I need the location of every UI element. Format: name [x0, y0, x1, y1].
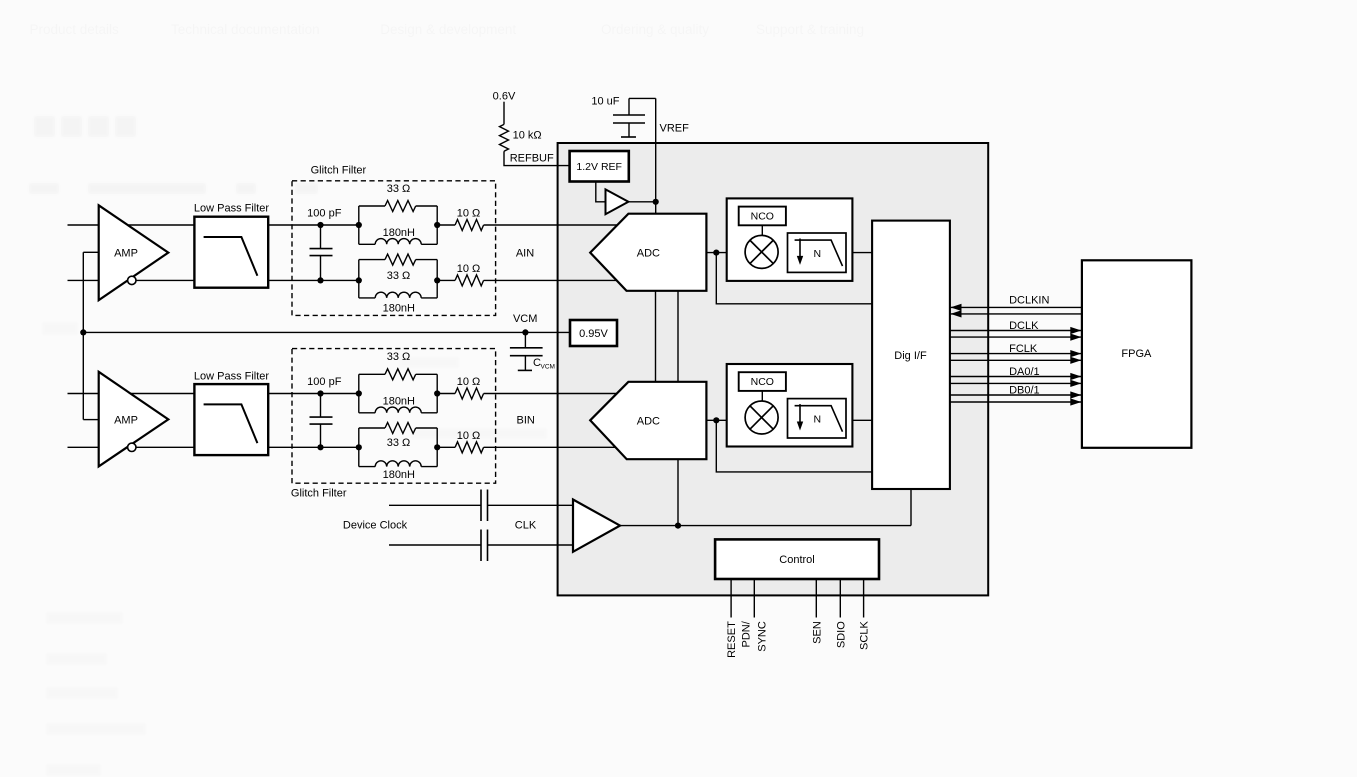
svg-text:FPGA: FPGA — [1121, 348, 1152, 360]
svg-text:DB0/1: DB0/1 — [1009, 384, 1040, 396]
pin label PDN/ — [741, 620, 753, 647]
wire buffer out to VREF node — [628, 201, 655, 203]
wire BIN+ input to AMP B — [68, 393, 99, 395]
block 1.2V REF — [570, 151, 629, 182]
wire SEN stub — [815, 579, 817, 618]
wire 1.2V REF to buffer — [596, 182, 606, 202]
wire AIN- to ADC A — [484, 279, 617, 281]
svg-text:NCO: NCO — [751, 376, 774, 388]
inversion bubble AMP B — [128, 443, 136, 451]
glitch filter B dashed boundary — [291, 349, 496, 500]
bus DCLK differential pair — [950, 320, 1082, 341]
wire clock rail ADC B to clock line — [677, 459, 679, 525]
block FPGA — [1082, 260, 1192, 448]
wire AMP B out- to LPF B — [136, 446, 194, 448]
svg-text:Ordering & quality: Ordering & quality — [601, 22, 709, 37]
net VCM from 0.95V reference — [80, 313, 570, 336]
svg-text:DA0/1: DA0/1 — [1009, 366, 1040, 378]
wire LPF B+ to glitch filter B — [268, 393, 359, 395]
wire REFBUF to 1.2V REF — [504, 151, 570, 165]
wire device clock + to coupling cap — [389, 504, 481, 506]
svg-text:0.6V: 0.6V — [493, 91, 516, 103]
pin label SCLK — [859, 621, 871, 650]
NCO / DDC subsystem B — [727, 364, 853, 447]
svg-text:Glitch Filter: Glitch Filter — [311, 165, 367, 177]
wire AMP B out+ to LPF B — [130, 393, 194, 395]
svg-text:1.2V REF: 1.2V REF — [576, 161, 622, 173]
svg-text:VCM: VCM — [541, 364, 555, 371]
node VREF junction — [653, 199, 659, 205]
wire SDIO stub — [839, 579, 841, 618]
wire RESET stub — [730, 579, 732, 618]
ADC B block — [590, 382, 706, 459]
wire BIN- to ADC B — [484, 446, 616, 448]
pin label BIN — [517, 414, 535, 426]
resistor 10 Ohm A- — [437, 263, 483, 286]
wire ADC B bypass to Dig I/F — [716, 420, 872, 472]
svg-text:180nH: 180nH — [383, 395, 415, 407]
svg-text:AMP: AMP — [114, 414, 138, 426]
svg-text:Support & training: Support & training — [756, 22, 864, 37]
svg-text:Technical documentation: Technical documentation — [171, 22, 320, 37]
block Control — [715, 539, 879, 579]
svg-text:DCLKIN: DCLKIN — [1009, 295, 1049, 307]
svg-text:180nH: 180nH — [383, 469, 415, 481]
NCO / DDC subsystem A — [727, 198, 853, 281]
inversion bubble AMP A — [128, 276, 136, 284]
capacitor 100 pF B — [307, 376, 342, 450]
IC U1 dual-channel ADC body — [558, 143, 989, 595]
wire AIN- input to AMP A — [68, 279, 99, 281]
ADC A block — [590, 214, 706, 291]
capacitor 100 pF A — [307, 208, 342, 284]
pin label CLK — [515, 520, 537, 532]
svg-text:Device Clock: Device Clock — [343, 520, 408, 532]
wire CLK+ into chip — [488, 504, 574, 506]
resistor 10 Ohm B+ — [437, 376, 483, 399]
resistor 10 Ohm A+ — [437, 208, 483, 231]
wire clock distribution — [620, 489, 911, 526]
svg-text:NCO: NCO — [751, 211, 774, 223]
clock buffer amplifier — [573, 500, 620, 552]
wire AMP A out- to LPF A — [136, 279, 194, 281]
resistor 33 Ohm / inductor 180nH parallel combo A- — [356, 254, 441, 314]
pin label SEN — [812, 621, 824, 644]
resistor 33 Ohm / inductor 180nH parallel combo B- — [356, 423, 441, 482]
svg-text:N: N — [814, 248, 822, 260]
wire LPF A+ to glitch filter A — [268, 224, 359, 226]
capacitor clock coupling + — [481, 490, 488, 522]
net VREF rail — [656, 98, 689, 213]
svg-text:DCLK: DCLK — [1009, 320, 1039, 332]
svg-text:10 Ω: 10 Ω — [457, 430, 481, 442]
svg-text:CLK: CLK — [515, 520, 537, 532]
svg-text:180nH: 180nH — [383, 303, 415, 315]
svg-text:FCLK: FCLK — [1009, 343, 1038, 355]
pin label SYNC — [757, 621, 769, 652]
block 0.95V reference — [570, 320, 617, 346]
wire ADC A bypass to Dig I/F — [716, 253, 872, 304]
wire NCO B to Dig I/F — [852, 419, 872, 421]
wire BIN- input to AMP B — [68, 446, 99, 448]
svg-text:REFBUF: REFBUF — [510, 152, 554, 164]
svg-text:ADC: ADC — [637, 248, 660, 260]
svg-text:Product details: Product details — [30, 22, 120, 37]
wire VCM to AMP A vocm — [83, 252, 98, 419]
pin label AIN — [516, 248, 534, 260]
wire AMP A out+ to LPF A — [128, 224, 195, 226]
svg-text:Glitch Filter: Glitch Filter — [291, 488, 347, 500]
capacitor clock coupling - — [481, 530, 488, 562]
svg-text:PDN/: PDN/ — [741, 620, 753, 647]
svg-text:100 pF: 100 pF — [307, 208, 342, 220]
wire ADC A to NCO A — [706, 252, 726, 254]
resistor 33 Ohm / inductor 180nH parallel combo B+ — [356, 351, 441, 413]
bus FCLK differential pair — [950, 343, 1082, 364]
wire SCLK stub — [863, 579, 865, 618]
svg-text:Control: Control — [779, 554, 814, 566]
wire LPF B- to glitch filter B — [268, 446, 359, 448]
svg-text:33 Ω: 33 Ω — [387, 437, 411, 449]
wire clock rail between ADCs — [677, 291, 679, 382]
svg-text:180nH: 180nH — [383, 227, 415, 239]
node ADC B output junction — [713, 417, 719, 423]
svg-text:0.95V: 0.95V — [579, 328, 608, 340]
low pass filter block B — [194, 371, 270, 456]
node clock junction — [675, 523, 681, 529]
svg-text:33 Ω: 33 Ω — [387, 270, 411, 282]
svg-text:SYNC: SYNC — [757, 621, 769, 652]
wire NCO A to Dig I/F — [852, 252, 872, 254]
svg-text:Dig I/F: Dig I/F — [894, 350, 927, 362]
low pass filter block A — [194, 203, 270, 288]
wire 10uF to VREF rail — [629, 97, 656, 99]
pin label RESET — [726, 621, 738, 658]
wire LPF A- to glitch filter A — [268, 279, 359, 281]
op-amp AMP B — [99, 372, 169, 467]
svg-text:10 Ω: 10 Ω — [457, 263, 481, 275]
op-amp AMP A — [99, 205, 169, 300]
svg-text:VREF: VREF — [660, 122, 690, 134]
wire AIN+ input to AMP A — [68, 224, 99, 226]
svg-text:SDIO: SDIO — [836, 621, 848, 648]
svg-text:RESET: RESET — [726, 621, 738, 658]
glitch filter A dashed boundary — [292, 165, 496, 316]
svg-text:SEN: SEN — [812, 621, 824, 644]
resistor 33 Ohm / inductor 180nH parallel combo A+ — [356, 183, 441, 244]
svg-text:10 kΩ: 10 kΩ — [513, 130, 542, 142]
wire device clock - to coupling cap — [389, 544, 481, 546]
svg-text:Low Pass Filter: Low Pass Filter — [194, 203, 270, 215]
wire CLK- into chip — [488, 544, 574, 546]
supply node 0.6V — [493, 91, 516, 125]
svg-text:100 pF: 100 pF — [307, 376, 342, 388]
svg-text:10 Ω: 10 Ω — [457, 376, 481, 388]
svg-text:AIN: AIN — [516, 248, 534, 260]
wire VREF rail between ADCs — [655, 291, 657, 382]
buffer amplifier REFBUF — [606, 189, 629, 214]
bus DCLKIN differential pair — [950, 295, 1082, 318]
capacitor C_VCM — [510, 329, 555, 370]
block Dig I/F — [872, 221, 950, 489]
svg-text:Design & development: Design & development — [380, 22, 516, 37]
bus DB0/1 differential pair — [950, 384, 1082, 405]
svg-text:AMP: AMP — [114, 248, 138, 260]
bus DA0/1 differential pair — [950, 366, 1082, 387]
capacitor 10 uF — [591, 96, 645, 137]
svg-text:33 Ω: 33 Ω — [387, 351, 411, 363]
svg-text:33 Ω: 33 Ω — [387, 183, 411, 195]
label Device Clock — [343, 520, 408, 532]
pin label SDIO — [836, 621, 848, 648]
svg-text:10 uF: 10 uF — [591, 96, 619, 108]
svg-text:SCLK: SCLK — [859, 621, 871, 650]
resistor 10 Ohm B- — [437, 430, 483, 453]
svg-text:10 Ω: 10 Ω — [457, 208, 481, 220]
resistor 10 kOhm — [500, 124, 542, 151]
svg-text:VCM: VCM — [513, 313, 537, 325]
wire AIN+ to ADC A — [484, 224, 618, 226]
svg-text:Low Pass Filter: Low Pass Filter — [194, 371, 270, 383]
wire PDN/SYNC stub — [753, 579, 755, 618]
wire ADC B to NCO B — [706, 419, 726, 421]
svg-text:N: N — [814, 414, 822, 426]
node ADC A output junction — [713, 250, 719, 256]
svg-text:ADC: ADC — [637, 415, 660, 427]
svg-text:BIN: BIN — [517, 414, 535, 426]
wire VCM to AMP B vocm — [83, 419, 98, 421]
pin label REFBUF — [510, 152, 554, 164]
wire BIN+ to ADC B — [484, 393, 617, 395]
